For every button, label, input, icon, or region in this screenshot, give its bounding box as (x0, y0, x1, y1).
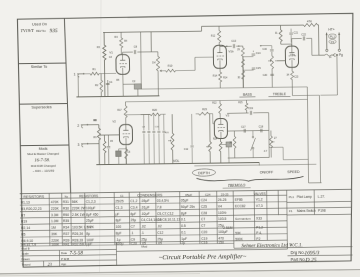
svg-text:R14: R14 (213, 75, 218, 78)
svg-text:0.1: 0.1 (181, 230, 186, 234)
svg-text:Mod E Master Changed: Mod E Master Changed (27, 152, 59, 156)
HT rail left segment (103, 31, 201, 32)
svg-text:C17: C17 (241, 125, 246, 128)
svg-text:0.5: 0.5 (181, 224, 186, 228)
svg-text:ON/OFF: ON/OFF (260, 170, 274, 174)
table header RESISTORS (23, 195, 44, 199)
svg-text:V4a: V4a (290, 53, 295, 57)
svg-text:C6,C8,10,11,13: C6,C8,10,11,13 (157, 218, 180, 222)
svg-text:C12: C12 (157, 231, 163, 235)
triode V4a (285, 46, 298, 67)
svg-text:V4: V4 (218, 204, 222, 208)
anode feed V2b (219, 101, 222, 119)
resistor R12 anode load V1b (217, 26, 220, 45)
svg-text:C15: C15 (256, 67, 261, 70)
resistor R26 (229, 131, 236, 158)
svg-text:R19 R28 Changed: R19 R28 Changed (31, 164, 56, 168)
svg-text:R41: R41 (63, 243, 69, 247)
wire HT rail to output section (318, 25, 319, 55)
screen feed wire (150, 32, 152, 52)
svg-text:220K: 220K (51, 207, 60, 211)
svg-text:EF86: EF86 (235, 198, 243, 202)
ground bus channel 2 (96, 163, 259, 165)
triode V1b (213, 45, 234, 68)
grid wire to V2a (99, 134, 119, 136)
output jack P9 (319, 53, 343, 57)
resistor R31 anode V4a (275, 25, 292, 46)
treble network capacitor C16 (260, 45, 274, 51)
svg-text:Date: Date (61, 251, 68, 255)
svg-text:~Circuit Portable Pre Amplifie: ~Circuit Portable Pre Amplifier~ (159, 253, 247, 261)
svg-text:Scale: Scale (21, 252, 29, 256)
svg-text:103½: 103½ (218, 211, 227, 215)
svg-text:470K: 470K (51, 200, 60, 204)
svg-text:Similar To: Similar To (31, 65, 48, 69)
left column divider: Mods (20, 144, 69, 147)
svg-text:R10: R10 (168, 64, 173, 68)
capacitor C1 (106, 80, 113, 97)
svg-text:D.25: D.25 (305, 257, 317, 263)
wire R10 to V1b grid (195, 57, 214, 70)
svg-text:.02: .02 (157, 224, 162, 228)
mains switch cell (289, 209, 326, 213)
svg-text:PL1: PL1 (289, 195, 295, 199)
svg-text:Used On: Used On (32, 22, 47, 26)
svg-text:C24: C24 (205, 192, 211, 196)
svg-text:1M: 1M (51, 226, 56, 230)
svg-text:.02: .02 (141, 225, 146, 229)
svg-text:7,8: 7,8 (157, 205, 162, 209)
svg-text:Mods: Mods (39, 147, 48, 151)
supply line channel 2 (125, 99, 307, 101)
parts table column lines (49, 190, 315, 252)
svg-text:C23: C23 (294, 77, 299, 79)
svg-text:23: 23 (48, 262, 52, 267)
pilot lamp cell (289, 195, 325, 199)
svg-text:R1,13: R1,13 (21, 201, 30, 205)
speed pot R28 (269, 130, 277, 157)
svg-text:FS: FS (331, 40, 335, 44)
svg-text:C16: C16 (262, 48, 267, 51)
svg-text:P2: P2 (256, 237, 260, 241)
filter caps C9 C10 C11 R21 R22 (142, 114, 166, 164)
svg-text:8μF: 8μF (181, 211, 187, 215)
svg-text:25/25: 25/25 (115, 199, 124, 203)
resistor list text rows (21, 200, 93, 247)
volume pot channel 2 (168, 114, 175, 164)
svg-text:X33: X33 (256, 217, 262, 221)
svg-text:R34: R34 (63, 226, 69, 230)
svg-text:.05: .05 (157, 241, 162, 245)
svg-text:.01μF: .01μF (141, 205, 150, 209)
output coupling capacitor C22 (292, 32, 319, 55)
svg-text:R7: R7 (21, 213, 25, 217)
svg-text:R37: R37 (63, 232, 69, 236)
capacitor C15 (243, 67, 261, 70)
svg-text:C20: C20 (131, 242, 137, 246)
svg-text:ECC82: ECC82 (235, 204, 246, 208)
resistor R1 grid stopper (84, 67, 117, 75)
svg-text:HT+: HT+ (328, 28, 335, 32)
cathode line to tremolo (292, 95, 320, 183)
cathode resistor V2b (219, 138, 232, 163)
svg-text:Pg: Pg (339, 53, 343, 57)
svg-text:1M: 1M (152, 61, 155, 64)
svg-text:Mod: Mod (141, 244, 147, 248)
svg-text:103.5: 103.5 (218, 217, 227, 221)
svg-text:Drg No.: Drg No. (290, 250, 305, 255)
screen dropper wire ch1 second stage (140, 32, 143, 89)
on-off switch S1 (250, 131, 255, 158)
grid capacitor C5 (107, 135, 114, 165)
svg-text:P198: P198 (318, 209, 326, 213)
tremolo brace (196, 176, 303, 181)
cathode resistor V4a (286, 67, 294, 95)
label: Mods (27, 147, 59, 173)
jack 1 ground drop (77, 76, 79, 97)
svg-text:V7,3: V7,3 (256, 204, 263, 208)
svg-text:1695/3: 1695/3 (304, 250, 319, 256)
volume pot R11 channel 1 (152, 52, 164, 96)
parts table row lines (20, 195, 288, 243)
left column: right edge (64, 19, 70, 194)
svg-text:05μF: 05μF (185, 193, 192, 197)
svg-text:100: 100 (116, 225, 122, 229)
svg-text:2.5K 1W: 2.5K 1W (72, 213, 86, 217)
svg-text:400μ: 400μ (116, 242, 124, 246)
table header RESISTORS cont (65, 194, 100, 198)
svg-text:8μF: 8μF (116, 219, 122, 223)
svg-text:8μF: 8μF (130, 212, 136, 216)
pilot lamp PL1 (329, 34, 337, 39)
table header VALVES (185, 192, 265, 197)
bass pot network (241, 46, 245, 88)
svg-text:.1: .1 (131, 231, 134, 235)
capacitor C17b (263, 74, 274, 77)
svg-text:Mains Switch: Mains Switch (297, 209, 316, 213)
svg-text:100μF: 100μF (86, 206, 96, 210)
right interconnect vertical (282, 87, 321, 183)
svg-text:R20: R20 (152, 108, 157, 112)
svg-text:R23: R23 (202, 107, 207, 111)
label: Used On (20, 22, 58, 35)
svg-text:R32,63L: R32,63L (72, 242, 85, 246)
valve list text (235, 197, 263, 221)
svg-text:C12: C12 (184, 149, 189, 151)
label SPEED (287, 170, 300, 174)
grid wire treble to V4a (275, 60, 285, 62)
bottom block labels (21, 244, 147, 267)
condenser list text rows (86, 198, 228, 246)
label VOL (173, 159, 180, 163)
svg-text:1.0M: 1.0M (51, 219, 59, 223)
svg-text:Part No.: Part No. (291, 257, 306, 262)
svg-text:.1 2K: .1 2K (86, 225, 95, 229)
svg-text:R35: R35 (63, 219, 69, 223)
label ON-OFF (260, 170, 274, 174)
grid leak resistor R18 (103, 135, 106, 165)
svg-text:56K: 56K (72, 200, 79, 204)
cathode resistor R5 and bypass C2 (123, 74, 142, 96)
coupling capacitor C13 (220, 39, 243, 49)
bus tick (258, 163, 260, 166)
svg-text:RESISTORS: RESISTORS (23, 195, 44, 199)
cathode resistor R14 (213, 68, 222, 88)
svg-text:C14: C14 (256, 52, 261, 55)
title cell line (116, 249, 287, 251)
svg-text:Mod B: Mod B (21, 247, 29, 251)
svg-text:μF: μF (115, 212, 119, 216)
resistor R4 anode load (114, 32, 123, 55)
resistor R2 grid leak (95, 74, 103, 97)
svg-text:25μ: 25μ (131, 218, 137, 222)
label DEPTH with oval (192, 169, 215, 177)
svg-text:C7: C7 (201, 224, 205, 228)
svg-text:C20: C20 (263, 74, 268, 77)
svg-text:500K: 500K (235, 237, 243, 241)
svg-text:R2,14: R2,14 (21, 226, 30, 230)
svg-text:L.27.: L.27. (318, 195, 325, 199)
HT+ terminal pins (325, 28, 340, 52)
depth pot (206, 114, 212, 164)
capacitor C19 (227, 106, 269, 115)
svg-text:05μF: 05μF (181, 198, 189, 202)
svg-text:μμF: μμF (86, 242, 92, 246)
svg-text:C3,4: C3,4 (130, 206, 137, 210)
phase shift line with C17 C18 (227, 125, 269, 133)
input jack 1 (74, 72, 85, 77)
resistor R3 decoupling (102, 32, 106, 96)
ground bus channel 1 (76, 96, 159, 97)
paper fold line (100, 0, 102, 277)
anode resistor V2a (124, 102, 127, 125)
svg-text:P 4,: P 4, (256, 231, 262, 235)
svg-text:25-25: 25-25 (221, 192, 229, 196)
svg-text:R1: R1 (92, 67, 96, 71)
svg-text:03,4,5½: 03,4,5½ (157, 199, 169, 203)
svg-text:C20: C20 (201, 230, 207, 234)
resistor R10 (164, 63, 195, 72)
cathode network V2a (116, 145, 128, 165)
svg-text:R50: R50 (63, 213, 69, 217)
svg-text:R22: R22 (212, 103, 217, 105)
svg-text:PL1: PL1 (330, 35, 335, 39)
Part No box (291, 257, 317, 264)
svg-text:C16: C16 (201, 241, 207, 245)
Selmer Electronics line (234, 242, 353, 250)
left column divider: Supersedes (19, 103, 67, 106)
svg-text:REV No: REV No (36, 29, 46, 33)
Drg No box (287, 250, 352, 257)
svg-text:R24: R24 (213, 139, 218, 141)
svg-text:No: No (65, 194, 69, 198)
svg-text:C24: C24 (201, 198, 207, 202)
svg-text:3: 3 (78, 143, 80, 147)
svg-text:1: 1 (74, 72, 76, 76)
label: Similar To (31, 65, 48, 69)
svg-text:Supersedes: Supersedes (31, 105, 51, 109)
svg-text:C19: C19 (248, 106, 253, 110)
svg-text:16-7-58.: 16-7-58. (34, 157, 50, 162)
triode V1a (109, 50, 129, 74)
svg-text:.1: .1 (141, 231, 144, 235)
resistor R8 mixing (94, 120, 101, 165)
svg-text:C5,C7,C12: C5,C7,C12 (157, 211, 174, 215)
tremolo bottom line (228, 156, 269, 159)
svg-text:C1,2,3: C1,2,3 (86, 200, 96, 204)
svg-text:Pilot Lamp: Pilot Lamp (297, 195, 312, 199)
svg-text:.02μF: .02μF (141, 212, 150, 216)
fuse FS (329, 40, 336, 44)
svg-text:100K: 100K (51, 243, 60, 247)
svg-text:R26,34: R26,34 (72, 232, 83, 236)
input jack 2 (77, 124, 88, 128)
svg-text:TREBLE: TREBLE (273, 92, 287, 96)
svg-text:V2: V2 (112, 119, 116, 123)
label TREMOLO (223, 184, 251, 189)
wire from output jack down (320, 56, 338, 95)
svg-text:2: 2 (77, 124, 79, 128)
svg-text:RESISTORS: RESISTORS (79, 194, 99, 198)
svg-text:R14: R14 (223, 77, 228, 79)
svg-text:R25: R25 (238, 102, 243, 104)
resistor R23 (196, 107, 213, 115)
triode V2b (213, 113, 230, 138)
treble pot (268, 52, 274, 88)
svg-text:F1: F1 (289, 209, 293, 213)
capacitor C14 (243, 50, 261, 56)
misc tiny component labels (92, 34, 333, 154)
svg-text:P1,2: P1,2 (256, 225, 263, 229)
resistor R20 (141, 108, 166, 116)
svg-text:C18: C18 (259, 125, 264, 128)
title: Circuit Portable Pre Amplifier (159, 253, 247, 261)
svg-text:0.1: 0.1 (181, 218, 186, 222)
table header CONDENSERS (120, 193, 163, 198)
svg-text:220K 2W: 220K 2W (72, 206, 87, 210)
HT rail right segment (202, 25, 304, 26)
svg-text:39K: 39K (51, 232, 58, 236)
svg-text:Selmer Electronics Ltd W.C.1.: Selmer Electronics Ltd W.C.1. (241, 242, 302, 249)
capacitor C12 line (190, 114, 194, 164)
svg-text:C13: C13 (231, 39, 236, 43)
jack 2 wire (87, 124, 98, 126)
svg-text:C7: C7 (131, 225, 135, 229)
svg-text:7-5-58: 7-5-58 (69, 252, 83, 257)
svg-text:R31: R31 (63, 200, 69, 204)
svg-text:CONDENSERS: CONDENSERS (137, 193, 163, 197)
svg-text:C7: C7 (201, 217, 205, 221)
svg-text:C28: C28 (201, 211, 207, 215)
resistor R25 (245, 100, 248, 113)
svg-text:C21: C21 (294, 32, 299, 35)
svg-text:C1: C1 (120, 194, 124, 198)
svg-text:Drawn: Drawn (22, 257, 31, 261)
svg-text:V1,2: V1,2 (256, 197, 263, 201)
svg-text:DEPTH: DEPTH (198, 171, 210, 175)
potentiometer list (223, 225, 263, 241)
svg-text:.05μF: .05μF (141, 199, 150, 203)
parts table right-section row lines (287, 202, 352, 215)
svg-text:R5: R5 (21, 233, 25, 237)
svg-text:TREMOLO: TREMOLO (228, 184, 246, 188)
svg-text:8μF 450: 8μF 450 (86, 212, 99, 216)
svg-text:App: App (61, 262, 67, 266)
svg-text:V1: V1 (109, 50, 113, 54)
input jack 3 (78, 143, 89, 147)
svg-text:2μ: 2μ (181, 241, 185, 245)
svg-text:C8: C8 (134, 45, 138, 49)
label BASS (239, 93, 255, 98)
svg-text:F.W.B: F.W.B (60, 257, 69, 261)
svg-text:150: 150 (218, 240, 224, 244)
svg-text:V3: V3 (226, 113, 230, 117)
bottom block: left rows (20, 241, 234, 267)
capacitor C21 (289, 29, 299, 43)
svg-text:VALVES: VALVES (254, 192, 266, 196)
jack 3 wire (88, 143, 99, 145)
parts table top line (20, 189, 352, 193)
svg-text:2-5&M: 2-5&M (223, 226, 233, 230)
svg-text:C1,2: C1,2 (130, 199, 137, 203)
coupling line channel 2 (126, 114, 151, 124)
svg-text:47K: 47K (307, 19, 312, 23)
label TREBLE (268, 92, 290, 97)
svg-text:VOL: VOL (173, 159, 180, 163)
svg-text:BASS: BASS (243, 93, 253, 97)
svg-text:R17: R17 (117, 110, 122, 112)
svg-text:50μF 25v: 50μF 25v (181, 205, 195, 209)
resistor R33 47K on HT rail (303, 19, 317, 26)
svg-text:~ R24 ~ 13/1/59: ~ R24 ~ 13/1/59 (33, 169, 55, 173)
svg-text:50K: 50K (235, 231, 242, 235)
svg-text:C25: C25 (201, 205, 207, 209)
svg-text:C1,3: C1,3 (115, 206, 122, 210)
left column divider: Similar To (18, 62, 65, 65)
tremolo long bottom wire (194, 164, 316, 166)
svg-text:TV19/T: TV19/T (21, 28, 35, 33)
svg-text:8μ: 8μ (86, 232, 90, 236)
svg-text:8μF: 8μF (116, 231, 122, 235)
svg-text:Germanium: Germanium (235, 217, 251, 221)
svg-text:C22: C22 (301, 32, 306, 36)
triode V2a (112, 119, 132, 145)
svg-text:25μF: 25μF (86, 219, 94, 223)
svg-text:R12: R12 (211, 36, 216, 38)
anode coupling wire with capacitor C8 (122, 44, 157, 54)
svg-text:100μF: 100μF (218, 230, 228, 234)
svg-text:Traced: Traced (22, 262, 31, 266)
svg-text:935: 935 (50, 28, 58, 34)
svg-text:V1b: V1b (228, 49, 234, 53)
svg-text:R3,R20,22,23: R3,R20,22,23 (21, 207, 42, 211)
svg-text:R30: R30 (63, 206, 69, 210)
svg-text:R19: R19 (21, 220, 27, 224)
svg-text:25-25: 25-25 (218, 198, 227, 202)
svg-text:SPEED: SPEED (287, 170, 300, 174)
bottom paper edge shadow (0, 270, 360, 274)
label: Supersedes (31, 105, 51, 109)
tremolo right vertical (263, 113, 283, 160)
HT rail step (201, 26, 203, 31)
svg-text:3.3M: 3.3M (51, 213, 59, 217)
tone stack bottom rail (141, 87, 307, 89)
